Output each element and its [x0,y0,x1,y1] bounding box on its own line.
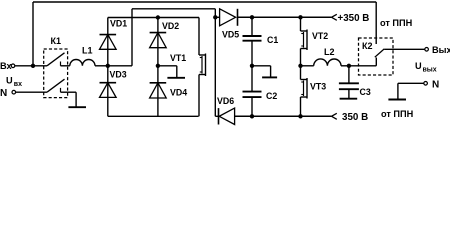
svg-text:вых: вых [423,66,437,73]
node Uвых label [415,61,437,73]
diode VD5 [220,9,240,40]
wire [214,9,216,17]
svg-text:VD2: VD2 [162,21,179,31]
wire [375,2,377,44]
svg-text:вх: вх [14,81,22,88]
relay K2 [359,38,394,75]
svg-text:N: N [0,88,7,99]
svg-text:Вх: Вх [0,61,13,71]
ground [68,92,86,107]
node M junction L2 C3 [347,64,351,68]
node D junction bridge AC right [156,64,160,68]
transistor VT1 [170,18,206,117]
wire [157,18,159,117]
node K junction VT3 source [298,114,302,118]
svg-text:VD3: VD3 [110,70,127,80]
wire [95,65,108,67]
wire [33,1,376,3]
wire [349,65,376,67]
diode VD4 [150,83,188,98]
svg-text:К2: К2 [362,41,373,51]
inductor L1 [70,46,95,66]
diode VD6 [217,96,235,125]
wire [32,2,34,66]
diode VD3 [100,70,127,98]
svg-text:от ППН: от ППН [381,109,414,119]
svg-text:Вых: Вых [432,45,450,55]
relay K1 contact 1 [47,53,70,66]
wire [215,16,219,18]
ground [158,66,185,78]
relay K1 contact 2 [47,79,76,92]
svg-text:C3: C3 [360,87,371,97]
wire [215,115,218,117]
node C junction VD2 top [156,15,160,19]
node A junction Вх-bypass [31,64,35,68]
node J junction inverter output [298,64,302,68]
svg-text:VD1: VD1 [110,19,127,29]
svg-text:VD5: VD5 [222,30,239,40]
wire [107,18,109,66]
relay K2 contact [375,49,385,66]
ground [252,66,277,78]
svg-text:L1: L1 [82,46,93,56]
diode VD1 [100,19,128,50]
node E junction VD5 anode [213,15,217,19]
wire [341,65,349,67]
svg-text:C2: C2 [266,91,277,101]
wire [108,65,132,67]
svg-text:VD6: VD6 [217,96,234,106]
ground [388,83,406,99]
wire [301,65,314,67]
wire [16,91,47,93]
svg-text:L2: L2 [324,47,335,57]
node N input terminal [0,88,16,99]
node N output terminal [424,79,439,90]
node 350 В feed from ППН [332,112,369,123]
svg-text:N: N [432,79,439,90]
node Вых output terminal [425,45,450,55]
node Вх input terminal [0,61,15,71]
svg-text:U: U [6,76,13,86]
wire [384,48,425,50]
svg-text:VT1: VT1 [170,53,186,63]
wire [235,115,332,117]
wire [214,17,216,116]
diode VD2 [150,21,180,48]
svg-text:U: U [415,61,422,71]
capacitor C2 [243,66,278,117]
svg-text:+350 В: +350 В [338,13,370,24]
node I junction VT2 drain [298,15,302,19]
wire [108,17,199,19]
node +350 В feed from ППН [332,13,370,24]
capacitor C1 [243,17,279,66]
node F junction C1 top [250,15,254,19]
svg-text:VD4: VD4 [170,88,187,98]
wire [132,8,215,10]
svg-text:350 В: 350 В [342,112,368,123]
inductor L2 [314,47,341,66]
wire [107,66,109,117]
transistor VT2 [301,17,329,66]
wire [238,16,332,18]
wire [108,115,199,117]
node от ППН label bottom [381,109,414,119]
wire [398,82,424,84]
node H junction C2 bottom [250,114,254,118]
node Uвх label [6,76,22,88]
wire [15,65,47,67]
svg-text:VT2: VT2 [312,31,328,41]
wire [131,9,133,66]
ground [340,89,358,99]
node от ППН label top [380,18,413,28]
svg-text:C1: C1 [267,35,278,45]
capacitor C3 [339,66,371,97]
svg-text:К1: К1 [51,36,62,46]
svg-text:от ППН: от ППН [380,18,413,28]
node G junction bus midpoint [250,64,254,68]
transistor VT3 [301,66,327,117]
svg-text:VT3: VT3 [310,82,326,92]
relay K1 [44,36,68,98]
node B junction bridge AC left [106,64,110,68]
